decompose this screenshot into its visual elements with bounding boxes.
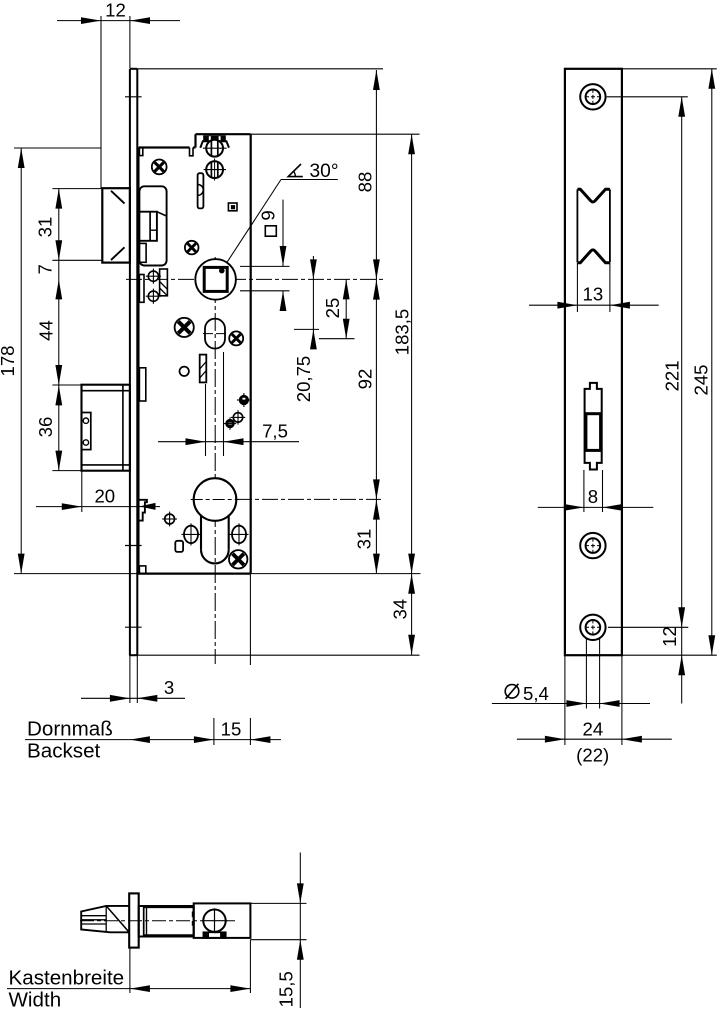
svg-text:36: 36: [35, 417, 56, 438]
svg-text:5,4: 5,4: [523, 683, 549, 704]
svg-text:13: 13: [583, 284, 604, 305]
svg-text:Backset: Backset: [27, 739, 101, 762]
svg-text:3: 3: [164, 677, 174, 698]
svg-text:183,5: 183,5: [392, 309, 413, 356]
svg-text:Kastenbreite: Kastenbreite: [9, 966, 125, 989]
svg-text:7: 7: [34, 264, 55, 274]
svg-text:31: 31: [34, 217, 55, 238]
svg-text:221: 221: [661, 360, 682, 391]
svg-text:7,5: 7,5: [262, 421, 288, 442]
svg-text:34: 34: [390, 599, 411, 620]
svg-text:12: 12: [659, 626, 680, 647]
svg-text:20: 20: [94, 486, 115, 507]
svg-text:178: 178: [0, 345, 18, 376]
svg-text:31: 31: [353, 529, 374, 550]
svg-text:15,5: 15,5: [275, 971, 296, 1007]
svg-text:30°: 30°: [309, 161, 338, 182]
svg-text:25: 25: [322, 298, 343, 319]
svg-text:Width: Width: [9, 988, 62, 1011]
svg-text:245: 245: [690, 364, 711, 395]
svg-text:24: 24: [583, 719, 604, 740]
svg-text:88: 88: [355, 172, 376, 193]
svg-text:15: 15: [221, 719, 242, 740]
svg-text:8: 8: [588, 486, 598, 507]
svg-text:Dornmaß: Dornmaß: [27, 718, 113, 741]
svg-text:9: 9: [257, 210, 278, 220]
svg-text:44: 44: [36, 320, 57, 341]
svg-text:12: 12: [105, 0, 126, 20]
svg-text:20,75: 20,75: [293, 356, 314, 403]
svg-text:92: 92: [355, 369, 376, 390]
svg-text:(22): (22): [576, 745, 609, 766]
